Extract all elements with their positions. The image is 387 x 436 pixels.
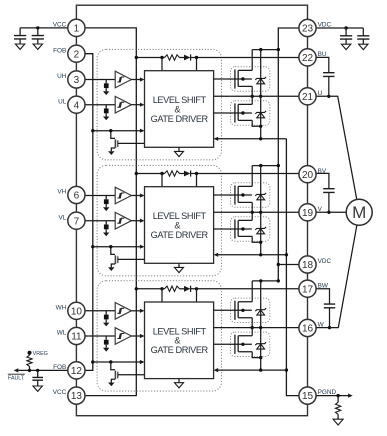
svg-text:PGND: PGND xyxy=(318,389,337,396)
wire bootstrap CBU top xyxy=(316,57,329,72)
wire input VL xyxy=(85,220,115,222)
svg-text:VDC: VDC xyxy=(318,22,332,29)
node PGND phase V xyxy=(285,253,288,256)
ground pulldown xyxy=(108,267,114,271)
node VDC cap junction xyxy=(344,26,347,29)
ground UL filter xyxy=(103,117,109,121)
svg-text:22: 22 xyxy=(302,53,314,64)
wire high-side source / low-side drain xyxy=(251,202,253,220)
body diode DWL xyxy=(255,342,266,349)
wire input WL xyxy=(85,335,115,337)
body diode DUL xyxy=(255,111,266,118)
svg-text:BW: BW xyxy=(318,282,329,289)
ground below driver box xyxy=(178,263,180,267)
transistor fault pulldown QW3 xyxy=(111,362,115,370)
wire phase output rail W xyxy=(214,327,299,329)
node bootstrap CBV xyxy=(327,211,330,214)
svg-text:W: W xyxy=(318,322,325,329)
capacitor bootstrap CBU xyxy=(323,73,334,77)
body diode DVL xyxy=(255,227,266,234)
wire low-side source rail to PGND xyxy=(218,138,287,140)
ground VH filter xyxy=(103,207,109,211)
wire VCC to bootstrap network (BW line) xyxy=(136,288,164,290)
wire bootstrap CBU bottom xyxy=(328,76,330,96)
wire body diode W low xyxy=(260,328,262,358)
svg-text:21: 21 xyxy=(302,92,314,103)
wire buffer WL output xyxy=(131,335,140,337)
wire low-side source xyxy=(252,236,261,254)
node pulldown drain xyxy=(109,360,112,363)
wire PGND rail xyxy=(286,139,299,396)
wire bootstrap CBV bottom xyxy=(328,192,330,212)
phase U driver block container xyxy=(97,49,221,159)
resistor bootstrap RV1 xyxy=(165,171,180,176)
ground VL filter xyxy=(103,233,109,237)
node PGND sense xyxy=(336,394,339,397)
svg-text:GATE DRIVER: GATE DRIVER xyxy=(151,230,209,240)
wire fault line into driver xyxy=(93,361,141,363)
svg-text:2: 2 xyxy=(74,49,80,60)
capacitor C4 (VDC decoupling) xyxy=(362,28,364,36)
capacitor C2 (VCC decoupling) xyxy=(37,28,39,36)
pin 15 (PGND) xyxy=(299,387,337,404)
wire phase output rail V xyxy=(214,211,299,213)
ground UH filter xyxy=(103,91,109,95)
transistor fault pulldown QV3 xyxy=(111,247,115,255)
svg-text:20: 20 xyxy=(302,170,314,181)
schmitt buffer VL xyxy=(115,212,131,229)
svg-text:4: 4 xyxy=(74,100,80,111)
wire input UL xyxy=(85,104,115,106)
transistor Q1 body box xyxy=(231,67,270,91)
wire high-side drain xyxy=(252,166,278,187)
wire low-side source rail to PGND xyxy=(218,369,287,371)
body diode DWH xyxy=(255,308,266,315)
wire buffer UL output xyxy=(131,104,140,106)
wire high-side source / low-side drain xyxy=(251,86,253,104)
node VDC rail tap xyxy=(277,48,280,51)
pin 23 (VDC) xyxy=(299,19,332,36)
wire taps into driver box top xyxy=(162,58,197,71)
wire taps into driver box top xyxy=(162,174,197,187)
wire phase output rail U xyxy=(214,95,299,97)
wire VCC to bootstrap network (BU line) xyxy=(136,57,164,59)
ground C1 xyxy=(15,44,24,49)
transistor Q5 body box xyxy=(231,298,270,322)
svg-text:15: 15 xyxy=(302,391,314,402)
body diode DVH xyxy=(255,193,266,200)
ground C3 xyxy=(341,44,350,49)
resistor bootstrap RW1 xyxy=(165,286,180,291)
capacitor input filter UL xyxy=(105,105,107,109)
svg-text:1: 1 xyxy=(74,24,80,35)
wire low-side source rail to PGND xyxy=(218,254,287,256)
transistor Q2 xyxy=(214,103,253,122)
ground below driver box xyxy=(178,147,180,151)
motor M1 xyxy=(346,199,372,225)
ground pulldown xyxy=(108,151,114,155)
node VCC tap phase W xyxy=(135,287,138,290)
wire high-side drain xyxy=(252,281,278,302)
node bootstrap CBW xyxy=(328,326,331,329)
pin 16 (W) xyxy=(299,319,325,336)
pin 20 (BV) xyxy=(299,166,327,183)
wire input UH xyxy=(85,79,115,81)
svg-text:VH: VH xyxy=(57,189,66,196)
transistor Q2 body box xyxy=(231,101,270,125)
svg-text:3: 3 xyxy=(74,75,80,86)
pin 18 (VDC) xyxy=(299,256,332,273)
pin 1 (VCC) xyxy=(53,19,85,36)
wire body diode V high xyxy=(260,166,262,213)
node bootstrap left xyxy=(160,56,163,59)
capacitor input filter WH xyxy=(105,311,107,315)
node VCC tap phase U xyxy=(135,56,138,59)
transistor fault pulldown QU3 xyxy=(111,131,115,139)
transistor Q5 xyxy=(214,301,253,320)
schmitt buffer WH xyxy=(115,303,131,320)
diode bootstrap DU1 xyxy=(184,55,190,61)
svg-text:BV: BV xyxy=(318,168,327,175)
op-amp UV level shift & gate driver box xyxy=(145,187,214,264)
svg-text:VCC: VCC xyxy=(53,389,67,396)
capacitor bootstrap CBW xyxy=(324,304,335,308)
transistor Q4 xyxy=(214,219,253,238)
ground pulldown xyxy=(108,383,114,387)
wire bootstrap CBW bottom xyxy=(329,308,331,328)
schmitt buffer VH xyxy=(115,187,131,204)
svg-text:WH: WH xyxy=(56,304,67,311)
svg-text:VL: VL xyxy=(58,214,66,221)
transistor Q3 xyxy=(214,185,253,204)
pin 11 (WL) xyxy=(57,327,85,344)
wire buffer VL output xyxy=(131,220,140,222)
wire phase U to motor xyxy=(316,96,357,199)
op-amp UW level shift & gate driver box xyxy=(145,302,214,379)
node VREG terminal xyxy=(28,351,32,355)
pin 22 (BU) xyxy=(299,49,327,66)
node fault pullup xyxy=(28,369,31,372)
ground below driver box xyxy=(178,379,180,383)
svg-text:18: 18 xyxy=(302,260,314,271)
ground WH filter xyxy=(103,323,109,327)
wire taps into driver box top xyxy=(162,289,197,302)
transistor Q1 xyxy=(214,69,253,88)
svg-text:17: 17 xyxy=(302,284,314,295)
node VDC rail tap xyxy=(277,164,280,167)
wire input WH xyxy=(85,310,115,312)
svg-text:23: 23 xyxy=(302,24,314,35)
node VCC tap phase V xyxy=(135,172,138,175)
IC package outline xyxy=(76,5,307,416)
wire buffer WH output xyxy=(131,310,140,312)
pin 10 (WH) xyxy=(56,302,85,319)
schmitt buffer WL xyxy=(115,328,131,345)
resistor sense R2 xyxy=(337,396,339,420)
wire body diode W high xyxy=(260,281,262,328)
capacitor C3 (VDC bulk) xyxy=(345,28,347,36)
node PGND phase W xyxy=(285,368,288,371)
node FOB tap phase V xyxy=(91,245,94,248)
svg-text:VDC: VDC xyxy=(318,258,332,265)
node left cap junction xyxy=(36,26,39,29)
node fault cap xyxy=(36,369,39,372)
ground fault cap xyxy=(33,386,42,391)
wire FOB bus pin2 to pin12 xyxy=(85,54,93,371)
svg-text:UH: UH xyxy=(57,73,67,80)
transistor Q4 body box xyxy=(231,217,270,241)
pin 12 (FOB) xyxy=(53,362,85,379)
node bootstrap left xyxy=(160,287,163,290)
node bootstrap left xyxy=(160,172,163,175)
svg-text:V: V xyxy=(318,206,323,213)
capacitor C1 (VCC bulk) xyxy=(19,28,21,36)
wire VCC decoupling left xyxy=(20,27,68,29)
ground C2 xyxy=(33,44,42,49)
svg-text:FOB: FOB xyxy=(53,47,66,54)
svg-text:M: M xyxy=(352,203,366,222)
pin 3 (UH) xyxy=(57,71,85,88)
svg-text:GATE DRIVER: GATE DRIVER xyxy=(151,114,209,124)
capacitor input filter VL xyxy=(105,221,107,225)
wire pin 18 VDC tap xyxy=(278,264,299,266)
capacitor bootstrap CBV xyxy=(323,189,334,193)
node pulldown drain xyxy=(109,245,112,248)
node FOB tap phase W xyxy=(91,360,94,363)
svg-text:19: 19 xyxy=(302,208,314,219)
transistor Q6 xyxy=(214,335,253,354)
wire fault line into driver xyxy=(93,246,141,248)
ground sense resistor xyxy=(333,419,343,425)
svg-text:GATE DRIVER: GATE DRIVER xyxy=(151,345,209,355)
resistor bootstrap RU1 xyxy=(165,55,180,60)
phase W driver block container xyxy=(97,281,221,391)
pin 2 (FOB) xyxy=(53,45,85,62)
svg-text:WL: WL xyxy=(57,330,67,337)
wire body diode V low xyxy=(260,212,262,242)
capacitor input filter UH xyxy=(105,80,107,84)
wire VDC internal rail xyxy=(278,28,299,281)
wire fault line into driver xyxy=(93,130,141,132)
pin 13 (VCC) xyxy=(53,387,85,404)
svg-text:10: 10 xyxy=(71,306,83,317)
pin 7 (VL) xyxy=(58,212,85,229)
wire input VH xyxy=(85,195,115,197)
wire PGND sense from pin 15 xyxy=(316,395,348,397)
node drain-diode xyxy=(259,48,262,51)
wire VDC from pin 23 to caps xyxy=(316,27,363,29)
svg-text:VREG: VREG xyxy=(33,351,48,357)
wire body diode U high xyxy=(260,50,262,97)
svg-text:6: 6 xyxy=(74,191,80,202)
pin 6 (VH) xyxy=(57,186,85,203)
phase V driver block container xyxy=(97,165,221,275)
node VDC pin18 xyxy=(277,263,280,266)
node bootstrap right xyxy=(195,56,198,59)
wire FAULT line from pin 12 xyxy=(18,369,68,371)
pin 21 (U) xyxy=(299,88,323,105)
svg-text:11: 11 xyxy=(71,332,82,343)
wire VCC bus from pin 1 to pin 13 xyxy=(85,28,136,396)
wire buffer VH output xyxy=(131,195,140,197)
node drain-diode xyxy=(259,279,262,282)
capacitor fault filter C5 xyxy=(37,370,39,377)
capacitor input filter WL xyxy=(105,336,107,340)
schmitt buffer UH xyxy=(115,71,131,88)
svg-text:7: 7 xyxy=(74,216,80,227)
wire VCC to bootstrap network (BV line) xyxy=(136,173,164,175)
svg-text:U: U xyxy=(318,90,323,97)
node pulldown drain xyxy=(109,129,112,132)
svg-text:13: 13 xyxy=(71,391,83,402)
svg-text:FOB: FOB xyxy=(53,364,66,371)
svg-text:BU: BU xyxy=(318,51,327,58)
svg-text:12: 12 xyxy=(71,366,83,377)
wire high-side source / low-side drain xyxy=(251,318,253,336)
transistor Q6 body box xyxy=(231,332,270,356)
wire bootstrap CBV top xyxy=(316,173,329,188)
wire high-side drain xyxy=(252,50,278,71)
capacitor input filter VH xyxy=(105,196,107,200)
node VDC rail tap xyxy=(277,279,280,282)
wire bootstrap CBW top xyxy=(316,289,330,304)
node bootstrap right xyxy=(195,172,198,175)
schmitt buffer UL xyxy=(115,96,131,113)
svg-text:FAULT: FAULT xyxy=(8,375,25,381)
svg-text:VCC: VCC xyxy=(53,22,67,29)
transistor Q3 body box xyxy=(231,183,270,207)
wire phase V to motor xyxy=(316,211,346,213)
resistor fault pull-up R1 xyxy=(29,353,31,371)
wire low-side source xyxy=(252,120,261,138)
pin 19 (V) xyxy=(299,204,323,221)
diode bootstrap DW1 xyxy=(184,286,190,292)
pin 4 (UL) xyxy=(58,96,85,113)
wire buffer UH output xyxy=(131,79,140,81)
wire low-side source xyxy=(252,352,261,370)
svg-text:UL: UL xyxy=(58,98,67,105)
wire body diode U low xyxy=(260,96,262,126)
node FOB tap phase U xyxy=(91,129,94,132)
pin 17 (BW) xyxy=(299,280,329,297)
wire phase W to motor xyxy=(316,225,357,328)
op-amp UU level shift & gate driver box xyxy=(145,71,214,148)
ground WL filter xyxy=(103,348,109,352)
node bootstrap right xyxy=(195,287,198,290)
node bootstrap CBU xyxy=(327,95,330,98)
diode bootstrap DV1 xyxy=(184,171,190,177)
node drain-diode xyxy=(259,164,262,167)
body diode DUH xyxy=(255,77,266,84)
svg-text:16: 16 xyxy=(302,324,314,335)
ground C4 xyxy=(359,44,368,49)
